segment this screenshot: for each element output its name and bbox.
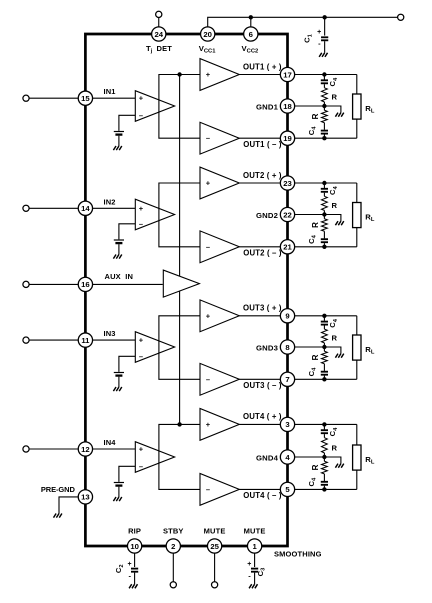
capacitor C1 [324,17,326,35]
junction C1 rail [322,15,326,19]
wire gnd row ch4 [295,456,325,458]
svg-text:4: 4 [285,453,290,462]
capacitor preamp NFB ch2 [114,239,124,240]
ground zobel ch1 [335,113,338,117]
ground zobel ch3 [335,354,338,358]
pin 4 [280,450,294,464]
svg-text:+: + [139,204,144,213]
wire zobel ground ch2 [324,215,341,222]
junction zobel top ch3 [322,314,326,318]
svg-text:C4: C4 [328,185,339,194]
svg-text:13: 13 [81,493,90,502]
svg-text:+: + [206,70,211,79]
wire zobel ground ch1 [324,106,341,113]
op-amp power +3 [200,300,239,332]
svg-text:1: 1 [252,542,257,551]
pin 23 [280,176,294,190]
IC package outline [85,34,287,546]
svg-text:C4: C4 [328,318,339,327]
svg-text:OUT4 ( – ): OUT4 ( – ) [243,491,282,500]
junction zobel mid ch4 [322,455,326,459]
terminal MUTE [212,582,218,588]
svg-text:20: 20 [203,30,212,39]
svg-text:R: R [311,464,320,470]
junction zobel top ch4 [322,422,326,426]
junction zobel mid ch1 [322,104,326,108]
svg-text:R: R [332,92,338,101]
capacitor preamp NFB ch1 [114,131,124,132]
ground C3 [249,584,252,588]
pin 21 [280,240,294,254]
pin 24 [152,27,166,41]
capacitor C4 upper ch2 [323,183,325,188]
wire input IN3 [29,339,85,341]
ground preamp NFB ch1 [113,146,116,150]
resistor R upper ch2 [322,196,328,210]
svg-text:IN4: IN4 [104,438,117,447]
resistor R lower ch3 [323,347,325,351]
svg-text:22: 22 [283,210,292,219]
ground zobel ch2 [335,221,338,225]
ground preamp NFB ch2 [113,255,116,259]
resistor RL ch3 [353,335,361,360]
svg-text:12: 12 [81,445,90,454]
wire preamp NFB ch1 [119,115,135,131]
svg-text:3: 3 [285,420,289,429]
resistor R upper ch1 [322,88,328,102]
junction zobel top ch2 [322,181,326,185]
svg-text:6: 6 [249,30,253,39]
op-amp preamp U3A [135,332,174,363]
svg-text:C4: C4 [328,427,339,436]
wire input IN4 [29,448,85,450]
svg-text:C2: C2 [114,564,125,573]
svg-text:R: R [311,222,320,228]
svg-text:PRE-GND: PRE-GND [41,485,76,494]
svg-text:+: + [247,561,251,568]
pin 15 [78,91,92,105]
wire out+ row ch3 [295,315,357,317]
wire out+ row ch4 [295,423,357,425]
pin 19 [280,131,294,145]
svg-text:RL: RL [365,345,375,356]
op-amp AUX buffer [163,270,199,297]
svg-text:RL: RL [365,104,375,115]
capacitor C4 lower ch4 [323,474,325,481]
terminal Tj DET [156,11,162,17]
capacitor C4 upper ch4 [323,424,325,429]
op-amp power -1 [200,122,239,154]
svg-text:16: 16 [81,280,90,289]
junction zobel bottom ch4 [322,487,326,491]
svg-text:–: – [139,462,143,471]
capacitor C2 [134,553,136,567]
svg-text:MUTE: MUTE [204,526,226,535]
svg-text:2: 2 [171,542,175,551]
resistor R lower ch1 [323,106,325,110]
resistor RL ch1 [353,94,361,119]
op-amp preamp U2A [135,199,174,230]
svg-text:11: 11 [81,336,90,345]
svg-text:OUT3 ( + ): OUT3 ( + ) [243,304,282,313]
svg-text:AUX IN: AUX IN [105,272,134,281]
svg-text:21: 21 [283,243,292,252]
svg-text:OUT2 ( + ): OUT2 ( + ) [243,171,282,180]
capacitor C3 [254,553,256,567]
pin 16 [78,277,92,291]
svg-text:OUT2 ( – ): OUT2 ( – ) [243,249,282,258]
wire aux bus [179,75,181,425]
wire STBY stub [172,553,174,582]
wire OUT1- [239,137,287,139]
op-amp power -3 [200,363,239,395]
junction zobel mid ch3 [322,345,326,349]
svg-text:15: 15 [81,94,90,103]
wire load branch ch2 [356,183,358,203]
svg-text:R: R [332,333,338,342]
wire out+ row ch2 [295,182,357,184]
wire gnd row ch1 [295,105,325,107]
svg-text:VCC2: VCC2 [242,44,259,55]
junction bus bottom [177,422,181,426]
junction zobel top ch1 [322,72,326,76]
wire NFB cap to ground ch3 [118,377,120,387]
wire OUT3+ [239,315,287,317]
svg-text:OUT1 ( + ): OUT1 ( + ) [243,62,282,71]
svg-text:SMOOTHING: SMOOTHING [274,550,322,559]
svg-text:9: 9 [285,312,289,321]
svg-text:8: 8 [285,343,290,352]
wire MUTE stub [214,553,216,582]
pin 17 [280,67,294,81]
wire OUT2- [239,246,287,248]
wire zobel ground ch3 [324,347,341,354]
svg-text:C4: C4 [328,77,339,86]
resistor RL ch2 [353,203,361,228]
wire input IN1 [29,97,85,99]
svg-text:+: + [139,94,144,103]
svg-text:-: - [318,39,321,48]
svg-text:-: - [128,571,131,580]
junction zobel bottom ch2 [322,245,326,249]
svg-text:C4: C4 [307,367,318,376]
svg-text:+: + [139,336,144,345]
pin 25 [207,539,221,553]
junction zobel bottom ch3 [322,377,326,381]
pin 1 [247,539,261,553]
input terminal AUX [23,281,29,287]
wire input IN2 [29,207,85,209]
svg-text:5: 5 [285,485,290,494]
pin 5 [280,482,294,496]
wire NFB cap to ground ch2 [118,244,120,254]
pin 18 [280,99,294,113]
op-amp preamp U4A [135,442,174,473]
wire out- row ch2 [295,246,357,248]
wire IN3 to preamp [93,339,136,341]
svg-text:+: + [206,311,211,320]
op-amp power -4 [200,474,239,506]
capacitor preamp NFB ch3 [114,372,124,373]
wire gnd row ch2 [295,214,325,216]
ground preamp NFB ch3 [113,387,116,391]
capacitor C4 lower ch1 [323,123,325,130]
wire out- row ch1 [295,137,357,139]
svg-text:14: 14 [81,204,90,213]
svg-text:–: – [206,242,210,251]
svg-text:DET: DET [157,44,173,53]
svg-text:7: 7 [285,375,289,384]
wire preamp split ch2 [159,183,200,247]
svg-text:R: R [311,354,320,360]
junction VCC2 rail [249,15,253,19]
wire zobel ground ch4 [324,457,341,464]
pin 6 [244,27,258,41]
svg-text:STBY: STBY [163,526,184,535]
pin 14 [78,201,92,215]
wire IN4 to preamp [93,448,136,450]
svg-text:IN2: IN2 [104,197,116,206]
svg-text:OUT1 ( – ): OUT1 ( – ) [243,140,282,149]
svg-text:OUT4 ( + ): OUT4 ( + ) [243,412,282,421]
wire preamp NFB ch2 [119,224,135,240]
svg-text:–: – [206,375,210,384]
svg-text:R: R [332,201,338,210]
svg-text:+: + [206,420,211,429]
svg-text:18: 18 [283,102,292,111]
wire preamp NFB ch4 [119,466,135,482]
resistor RL ch4 [353,445,361,470]
svg-text:-: - [248,571,251,580]
svg-text:RL: RL [365,455,375,466]
pin 13 [78,490,92,504]
svg-text:23: 23 [283,179,292,188]
wire IN2 to preamp [93,207,136,209]
svg-text:–: – [206,134,210,143]
input terminal IN3 [23,337,29,343]
pin 20 [201,27,215,41]
wire load branch ch3 [356,316,358,335]
ground C2 [129,584,132,588]
svg-text:24: 24 [154,30,163,39]
ground pre-gnd [54,514,57,518]
wire AUX to buffer [93,283,163,285]
pin 3 [280,417,294,431]
wire out- row ch3 [295,378,357,380]
wire IN1 to preamp [93,97,136,99]
svg-text:+: + [206,179,211,188]
resistor R lower ch2 [323,215,325,219]
resistor R lower ch4 [323,457,325,461]
wire load branch ch4 [356,424,358,445]
svg-text:VCC1: VCC1 [199,44,217,55]
ground C1 [319,53,322,57]
svg-text:+: + [139,445,144,454]
capacitor C4 lower ch3 [323,364,325,371]
svg-text:GND2: GND2 [256,211,278,220]
resistor R upper ch3 [322,329,328,343]
wire gnd row ch3 [295,346,325,348]
wire preamp NFB ch3 [119,356,135,372]
op-amp power +2 [200,167,239,199]
svg-text:Tj: Tj [146,44,153,55]
svg-text:+: + [127,561,131,568]
svg-text:RIP: RIP [128,526,141,535]
svg-text:C4: C4 [307,126,318,135]
pin 22 [280,207,294,221]
wire NFB cap to ground ch4 [118,487,120,497]
pin 9 [280,309,294,323]
wire pre-gnd [59,497,78,514]
junction zobel bottom ch1 [322,136,326,140]
pin 11 [78,333,92,347]
svg-text:+: + [317,29,321,36]
wire OUT4+ [239,423,287,425]
svg-text:17: 17 [283,70,292,79]
svg-text:19: 19 [283,134,292,143]
wire preamp split ch4 [159,424,200,489]
svg-text:C4: C4 [307,477,318,486]
wire OUT2+ [239,182,287,184]
svg-text:R: R [332,443,338,452]
pin 10 [127,539,141,553]
svg-text:R: R [311,113,320,119]
pin 12 [78,442,92,456]
svg-text:–: – [139,352,143,361]
pin 2 [166,539,180,553]
wire VCC2 riser [250,17,252,27]
input terminal IN1 [23,95,29,101]
svg-text:GND1: GND1 [256,102,279,111]
pin 8 [280,340,294,354]
svg-text:25: 25 [210,542,219,551]
wire preamp split ch1 [159,75,200,139]
input terminal IN4 [23,446,29,452]
wire VCC rail [208,17,398,27]
terminal STBY [170,582,176,588]
wire out+ row ch1 [295,74,357,76]
pin 7 [280,372,294,386]
op-amp power -2 [200,231,239,263]
capacitor C4 upper ch1 [323,75,325,80]
svg-text:GND3: GND3 [256,343,278,352]
capacitor C4 upper ch3 [323,316,325,321]
op-amp power +4 [200,409,239,441]
wire load branch ch1 [356,75,358,95]
svg-text:–: – [139,111,143,120]
capacitor preamp NFB ch4 [114,482,124,483]
junction bus top [177,72,181,76]
resistor R upper ch4 [322,438,328,453]
svg-text:C4: C4 [307,234,318,243]
capacitor C4 lower ch2 [323,231,325,238]
wire NFB cap to ground ch1 [118,136,120,146]
op-amp power +1 [200,59,239,91]
wire out- row ch4 [295,488,357,490]
svg-text:IN1: IN1 [104,87,116,96]
wire input AUX [29,283,85,285]
svg-text:OUT3 ( – ): OUT3 ( – ) [243,381,282,390]
wire OUT1+ [239,74,287,76]
svg-text:IN3: IN3 [104,329,116,338]
svg-text:–: – [206,485,210,494]
svg-text:C1: C1 [303,33,314,42]
wire preamp split ch3 [159,316,200,380]
svg-text:10: 10 [130,542,139,551]
ground preamp NFB ch4 [113,497,116,501]
svg-text:RL: RL [365,212,375,223]
svg-text:MUTE: MUTE [244,526,266,535]
junction zobel mid ch2 [322,212,326,216]
wire OUT3- [239,378,287,380]
ground zobel ch4 [335,464,338,468]
wire OUT4- [239,488,287,490]
terminal VCC supply [398,14,404,20]
op-amp preamp U1A [135,91,174,122]
svg-text:GND4: GND4 [256,453,279,462]
input terminal IN2 [23,205,29,211]
svg-text:–: – [139,219,143,228]
